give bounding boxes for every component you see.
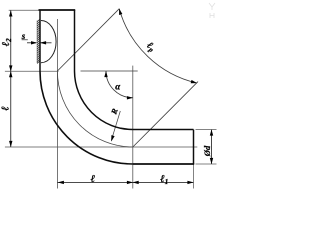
svg-text:s: s: [21, 31, 26, 41]
pipe right edge vertical: [74, 10, 76, 71]
wire: bottom dimension line: [57, 181, 193, 183]
arrow: bottom dim right (right-pointing): [187, 181, 193, 184]
arrow: s left (right-pointing): [31, 41, 37, 44]
pipe left outer edge: [39, 10, 41, 71]
s underline: [22, 39, 28, 41]
pipe outer bend arc: [40, 71, 133, 164]
svg-text:ℓ: ℓ: [91, 174, 96, 185]
wire: R radius leader: [111, 111, 120, 141]
wall section hatching: [37, 19, 40, 64]
wire: Od top extension: [196, 129, 217, 131]
arrow: bottom dim mid right-pointing: [127, 181, 133, 184]
wire: bend axis arc (neutral axis radius R): [57, 71, 132, 147]
wire: extension line top-left face: [9, 9, 39, 11]
wire: alpha angle arc: [106, 71, 133, 98]
pipe top end face: [39, 9, 76, 11]
arrow: left dim mid down: [9, 65, 12, 71]
arrow: lp arc right: [191, 80, 198, 85]
arrow: bottom dim left (left-pointing): [58, 181, 64, 184]
svg-text:Ød: Ød: [202, 145, 212, 157]
wire: Od bottom extension: [196, 163, 217, 165]
arrow: alpha arc end (right): [127, 96, 133, 99]
faint scan artifacts top right: [209, 3, 215, 18]
wire: right dimension line Od: [211, 130, 213, 165]
arrow: left dim mid up: [9, 71, 12, 77]
arrow: lp arc top: [117, 8, 122, 15]
wire: lp dimension arc: [119, 9, 197, 83]
wire: horizontal pipe axis / extension line: [5, 146, 197, 148]
arrow: R leader (down-left): [110, 135, 115, 142]
arrow: s right (left-pointing): [40, 41, 46, 44]
s leader left line: [27, 42, 36, 44]
bore break-out ellipse: [41, 21, 56, 63]
wire: extension line at tangent T1: [5, 70, 59, 72]
wire: left dimension line: [10, 10, 12, 147]
wire: 45-degree extension line from T2: [133, 82, 198, 147]
wire: extension line bottom-right: [193, 164, 195, 189]
pipe bottom edge: [133, 163, 194, 165]
wire: alpha horizontal ray: [81, 70, 138, 72]
pipe inner bend arc: [75, 71, 133, 130]
wire: 45-degree extension line from T1: [57, 9, 119, 71]
pipe horizontal top edge: [133, 129, 194, 131]
s leader right line: [41, 42, 52, 44]
wire: alpha vertical ray / extension line: [132, 66, 134, 189]
svg-text:ℓ: ℓ: [1, 106, 12, 111]
arrow: left dim bottom (down): [9, 141, 12, 147]
pipe right end face: [193, 130, 195, 165]
arrow: Od top (up): [210, 129, 213, 135]
arrow: bottom dim mid left-pointing: [133, 181, 139, 184]
arrow: alpha arc top (up): [104, 71, 107, 77]
arrow: left dim top (up): [9, 10, 12, 16]
wall outer surface line: [36, 21, 38, 64]
arrow: Od bottom (down): [210, 158, 213, 164]
wire: vertical pipe axis / extension line: [56, 19, 58, 189]
